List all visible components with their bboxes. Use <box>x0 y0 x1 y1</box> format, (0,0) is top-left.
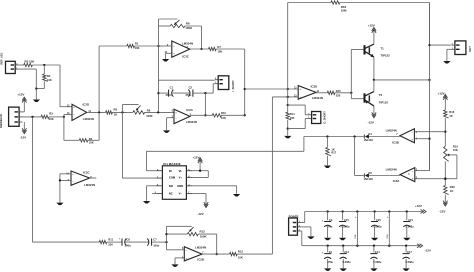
op-amp IC3C <box>165 41 194 58</box>
wire +12V bus <box>305 210 424 212</box>
wire IC3D noninv input <box>245 88 299 90</box>
ground at OUT <box>443 61 450 64</box>
capacitor C8 <box>119 237 131 247</box>
svg-text:1K: 1K <box>449 114 452 118</box>
-12V supply at IC1 <box>197 200 208 216</box>
trimmer R12 <box>167 226 217 238</box>
svg-text:+12V: +12V <box>438 91 445 95</box>
resistor R10 <box>212 111 226 120</box>
wire POWER pin1 to +12V bus <box>301 212 305 223</box>
wire IC3A top input <box>415 142 430 171</box>
wire R15 to driver bases <box>335 92 353 94</box>
capacitor C21 <box>403 212 414 241</box>
wire T2 collector <box>373 80 375 92</box>
svg-text:R20: R20 <box>450 185 455 189</box>
svg-text:10M: 10M <box>341 9 347 13</box>
wire OUT pin1 to ground <box>447 49 452 61</box>
svg-text:10K: 10K <box>290 116 295 120</box>
svg-text:-12V: -12V <box>425 249 431 253</box>
ground at IC2B <box>171 264 178 267</box>
op-amp IC3D <box>294 85 323 100</box>
svg-text:POWER: POWER <box>289 214 299 218</box>
wire IC1 NO to ground <box>147 186 157 201</box>
connector D_SHORT <box>308 111 326 124</box>
svg-text:220: 220 <box>336 93 341 97</box>
wire IC3B output <box>369 136 400 138</box>
svg-text:IC2A: IC2A <box>186 108 193 112</box>
wire output top feedback <box>288 3 430 46</box>
svg-text:LM324N: LM324N <box>186 120 197 124</box>
wire IC1 NC stub <box>152 193 156 195</box>
svg-text:100u: 100u <box>125 243 131 247</box>
op-amp IC2C <box>66 171 95 188</box>
wire R13 to IC3D inv <box>237 97 272 254</box>
svg-text:IC3D: IC3D <box>311 85 318 89</box>
svg-text:1N4148: 1N4148 <box>364 138 374 142</box>
wire IC2A output <box>190 114 212 116</box>
-12V supply at FEEDBACK <box>20 122 27 139</box>
svg-text:LM324N: LM324N <box>84 183 95 187</box>
svg-text:R4: R4 <box>89 137 93 141</box>
svg-text:R10: R10 <box>221 111 226 115</box>
svg-text:R12: R12 <box>200 230 206 234</box>
svg-text:C4: C4 <box>329 250 333 254</box>
ground at R17 <box>324 166 331 169</box>
op-amp IC3A <box>386 168 418 183</box>
wire R11 to C8 <box>107 241 122 243</box>
wire D2 to IC3A output <box>369 175 400 177</box>
wire I_SHORT pin1 to cap node <box>205 84 214 93</box>
wire IC2C inputs to ground <box>59 174 71 203</box>
svg-text:LM324N: LM324N <box>386 128 397 132</box>
ground at R14 <box>284 136 291 139</box>
svg-text:R19: R19 <box>453 144 458 148</box>
wire output sense vertical <box>428 3 430 171</box>
capacitor C16 rail to rail <box>355 212 357 246</box>
wire IC1 VL and V+ to +12V <box>192 170 208 178</box>
wire -12V bus <box>302 245 420 247</box>
svg-text:1K: 1K <box>450 189 453 193</box>
svg-text:I_SHORT: I_SHORT <box>231 80 235 92</box>
wire IC2C output stub <box>90 177 97 179</box>
wire D_SHORT pin1 <box>288 119 309 129</box>
svg-text:LM324N: LM324N <box>182 41 193 45</box>
wire R7 to IC3D noninv <box>216 49 246 116</box>
svg-text:C13: C13 <box>344 250 349 254</box>
connector OUT <box>452 41 472 55</box>
svg-text:10K: 10K <box>453 148 458 152</box>
wire R8 to R9 node <box>112 111 132 113</box>
svg-text:T1: T1 <box>380 47 384 51</box>
svg-text:470n: 470n <box>185 93 191 97</box>
wire IC3C inv input <box>159 45 172 47</box>
+12V supply at T1 <box>368 23 376 44</box>
wire T2 emitter to -12V <box>373 106 375 110</box>
capacitor C14 <box>370 246 381 271</box>
svg-text:470u: 470u <box>326 225 332 229</box>
resistor R5 <box>24 59 36 66</box>
svg-text:-12V: -12V <box>197 212 203 216</box>
resistor R16 <box>444 110 455 118</box>
wire IC1 V- pin <box>192 194 206 200</box>
trimmer R6 <box>159 19 202 30</box>
svg-text:-12V: -12V <box>368 121 374 125</box>
wire D1 node to D2 <box>355 137 364 176</box>
wire R14 to ground <box>287 129 289 136</box>
svg-text:R3: R3 <box>49 111 53 115</box>
wire IC3B bottom input <box>414 138 429 140</box>
svg-text:100K: 100K <box>185 26 193 30</box>
svg-text:0.068u: 0.068u <box>406 225 414 229</box>
wire IC2B noninv to ground <box>175 258 184 264</box>
svg-text:IC2C: IC2C <box>83 171 90 175</box>
wire R20 to -12V <box>444 195 446 199</box>
svg-text:C1: C1 <box>170 86 174 90</box>
svg-text:470u: 470u <box>327 260 333 264</box>
svg-text:10K: 10K <box>47 78 52 82</box>
svg-text:10K: 10K <box>217 50 222 54</box>
svg-text:D1: D1 <box>369 132 373 136</box>
wire IC3D inv input <box>272 96 298 98</box>
svg-text:R8: R8 <box>114 108 118 112</box>
resistor R18 <box>331 1 347 13</box>
wire IC2D output up to R1 <box>99 46 127 112</box>
op-amp IC3B <box>386 128 418 144</box>
wire R12 to IC2B output <box>216 234 218 255</box>
wire C2 to IC2A output node <box>194 92 207 117</box>
capacitor C17 <box>403 246 414 271</box>
svg-text:R5 10K: R5 10K <box>25 59 36 63</box>
svg-text:R11: R11 <box>108 237 113 241</box>
wire IC2A inv to ground <box>167 118 174 131</box>
svg-text:R17: R17 <box>331 151 336 155</box>
wire IC1 IN from comparator line <box>146 151 304 170</box>
svg-text:V−: V− <box>179 192 183 196</box>
trimmer R9 <box>122 105 152 118</box>
ground at IC1 NO <box>143 201 150 204</box>
svg-text:C14: C14 <box>375 250 380 254</box>
capacitor C1 <box>165 86 173 97</box>
ground at IC2A <box>163 130 170 133</box>
svg-text:LM324N: LM324N <box>83 117 94 121</box>
resistor R17 <box>326 137 337 166</box>
connector REF_ADJ <box>0 52 19 73</box>
+12V supply at IC1 <box>192 155 202 170</box>
svg-text:-12V: -12V <box>439 210 445 214</box>
diode D1 <box>364 132 374 142</box>
svg-text:R2: R2 <box>47 74 51 78</box>
capacitor C7 <box>147 237 159 247</box>
svg-text:1K: 1K <box>114 113 117 117</box>
svg-text:LM324N: LM324N <box>386 168 397 172</box>
resistor R14 <box>286 105 295 130</box>
capacitor C13 <box>340 246 351 271</box>
svg-text:470n: 470n <box>165 93 171 97</box>
wire R18 sense vertical <box>287 3 289 107</box>
wire R9 to IC2A input <box>145 111 174 113</box>
resistor R13 <box>230 250 244 260</box>
wire node A to I_SHORT pin2 <box>159 79 215 81</box>
svg-text:C7: C7 <box>153 237 157 241</box>
transistor T1 <box>364 44 391 58</box>
svg-text:IC3C: IC3C <box>182 54 189 58</box>
svg-text:R14: R14 <box>290 112 295 116</box>
svg-text:R1: R1 <box>135 42 139 46</box>
wire R6 to IC3C output <box>200 26 202 50</box>
resistor R15 <box>327 89 341 97</box>
resistor R4 feedback <box>64 112 99 144</box>
wire R1 to IC3C inv node <box>135 45 160 47</box>
diode D2 <box>364 171 374 181</box>
svg-text:10K: 10K <box>49 117 54 121</box>
wire R19 to R20 <box>444 161 446 185</box>
svg-text:100K: 100K <box>200 234 208 238</box>
svg-text:LM324N: LM324N <box>312 96 323 100</box>
wire T1 emitter to node <box>373 57 375 81</box>
svg-text:100K: 100K <box>146 114 152 118</box>
wire IC2B inv node vertical <box>165 226 184 250</box>
svg-text:0.068u: 0.068u <box>373 260 381 264</box>
transistor T2 <box>364 92 389 106</box>
trimmer R19 <box>444 144 459 161</box>
op-amp IC2A <box>172 108 197 124</box>
svg-text:C17: C17 <box>407 250 412 254</box>
svg-text:C20: C20 <box>376 218 381 222</box>
svg-text:C15: C15 <box>344 218 349 222</box>
wire FEEDBACK pin2 to R3 <box>23 116 42 118</box>
wire C1 to C2 <box>173 92 189 94</box>
svg-text:0.068u: 0.068u <box>343 260 351 264</box>
svg-text:10K: 10K <box>89 140 94 144</box>
wire R19 wiper to IC3A <box>415 155 457 179</box>
resistor R11 <box>99 237 113 246</box>
wire R10 to R7 node <box>222 114 245 116</box>
svg-text:TIP122: TIP122 <box>380 54 390 58</box>
capacitor C15 <box>339 212 350 241</box>
capacitor C2 <box>185 86 193 97</box>
-12V supply at T2 <box>368 110 377 124</box>
wire node X down to IC2D noninv <box>60 65 72 107</box>
+12V supply at divider <box>438 91 448 110</box>
svg-text:GND: GND <box>177 184 183 188</box>
svg-text:R7: R7 <box>217 45 221 49</box>
svg-text:0.068u: 0.068u <box>373 225 381 229</box>
-12V supply at divider <box>439 199 448 214</box>
svg-text:+12V: +12V <box>415 204 422 208</box>
svg-text:100u: 100u <box>153 243 159 247</box>
svg-text:COM: COM <box>169 176 176 180</box>
svg-text:+12V: +12V <box>192 155 199 159</box>
svg-text:REF_ADJ: REF_ADJ <box>0 52 4 64</box>
svg-text:T2: T2 <box>379 93 383 97</box>
wire R3 to IC2D inv input <box>49 115 72 119</box>
wire C7 to IC2B <box>152 241 167 243</box>
connector I_SHORT <box>215 76 235 92</box>
svg-text:FEEDBACK: FEEDBACK <box>0 113 3 128</box>
wire R2 bottom to ground <box>35 87 44 99</box>
wire output node to sense line <box>374 79 431 81</box>
resistor R20 <box>444 185 456 194</box>
wire REF_ADJ pin1 to ground <box>19 69 37 88</box>
capacitor C3 <box>322 212 333 241</box>
svg-text:IC3A: IC3A <box>393 179 400 183</box>
resistor R2 <box>43 65 52 89</box>
svg-text:OUT: OUT <box>468 46 472 52</box>
wire comparator line <box>304 135 364 151</box>
svg-text:TIP125: TIP125 <box>379 100 389 104</box>
svg-text:1N4148: 1N4148 <box>364 177 374 181</box>
wire base link <box>351 50 364 99</box>
resistor R1 <box>127 42 140 50</box>
wire FEEDBACK to R11 <box>33 117 100 242</box>
svg-text:0.068u: 0.068u <box>406 260 414 264</box>
svg-text:D2: D2 <box>369 171 373 175</box>
capacitor C19 rail to rail <box>387 212 389 246</box>
wire IC3A bottom input junction <box>444 178 446 180</box>
svg-text:C8: C8 <box>126 237 130 241</box>
wire D_SHORT pin2 <box>288 105 309 115</box>
svg-text:IC3B: IC3B <box>392 140 399 144</box>
wire IC2B output <box>202 253 230 255</box>
svg-text:200: 200 <box>108 242 113 246</box>
svg-text:R16: R16 <box>449 110 454 114</box>
wire node A to C1 <box>159 92 169 94</box>
svg-text:R9: R9 <box>147 109 151 113</box>
svg-text:10K: 10K <box>221 116 226 120</box>
svg-text:IC2B: IC2B <box>197 258 204 262</box>
wire IC1 GND pin <box>192 186 236 194</box>
svg-text:-12V: -12V <box>20 135 26 139</box>
IC1 MAX318 <box>155 162 193 199</box>
svg-text:LM324N: LM324N <box>195 246 206 250</box>
ground at IC2C <box>56 203 63 206</box>
wire REF_ADJ pin2 to R5 <box>19 64 24 66</box>
wire IC2D output node <box>87 111 106 113</box>
capacitor C20 <box>371 212 382 241</box>
svg-text:NC: NC <box>169 192 173 196</box>
wire IC3D output <box>316 92 327 94</box>
resistor R3 <box>41 111 54 121</box>
resistor R7 <box>209 45 223 54</box>
ground below R2 <box>33 100 40 103</box>
svg-text:IN: IN <box>169 169 172 173</box>
wire R16 to R19 <box>444 118 446 146</box>
capacitor C4 <box>322 246 334 271</box>
svg-text:NO: NO <box>169 184 173 188</box>
svg-text:IC1 MAX318: IC1 MAX318 <box>163 162 181 166</box>
wire C8 to C7 <box>126 241 149 243</box>
svg-text:R13: R13 <box>238 250 243 254</box>
svg-text:+12V: +12V <box>17 93 24 97</box>
svg-text:C21: C21 <box>408 218 413 222</box>
+12V bus arrow <box>415 204 426 214</box>
svg-text:10K: 10K <box>238 256 243 260</box>
svg-text:C2: C2 <box>189 86 193 90</box>
svg-text:VL: VL <box>179 169 183 173</box>
wire IC3C noninv to ground <box>166 53 172 59</box>
svg-text:D_SHORT: D_SHORT <box>323 111 327 124</box>
wire IC3C output <box>190 48 209 50</box>
-12V bus arrow <box>417 244 431 253</box>
ground at IC1 GND pin <box>233 194 240 197</box>
+12V supply at FEEDBACK <box>17 93 26 112</box>
op-amp IC2D <box>67 103 94 121</box>
svg-text:C3: C3 <box>329 218 333 222</box>
wire R5 to node X <box>32 64 60 66</box>
wire IC3B top input <box>414 131 445 133</box>
wire POWER pin2 to ground <box>301 227 311 236</box>
svg-text:0.068u: 0.068u <box>341 225 349 229</box>
svg-text:V+: V+ <box>179 176 183 180</box>
connector POWER <box>289 214 301 235</box>
wire POWER pin3 to -12V bus <box>301 231 302 246</box>
ground at POWER <box>307 236 314 239</box>
svg-text:+12V: +12V <box>368 23 375 27</box>
svg-text:IC2D: IC2D <box>83 103 90 107</box>
wire to OUT connector <box>430 44 451 46</box>
resistor R8 <box>106 108 118 117</box>
connector FEEDBACK <box>0 107 22 128</box>
ground at IC3C <box>162 59 169 62</box>
wire IC2A node to IC1 COM <box>122 112 156 178</box>
wire node A vertical <box>157 19 159 112</box>
op-amp IC2B <box>182 246 206 262</box>
